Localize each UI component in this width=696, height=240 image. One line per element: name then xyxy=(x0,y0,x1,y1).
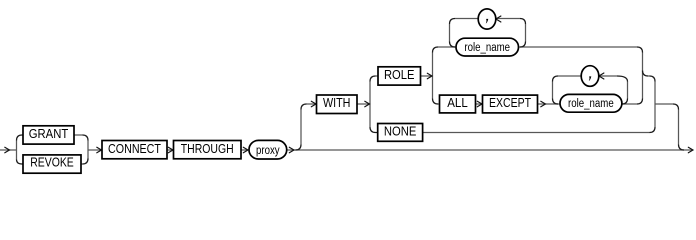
wire ALL to EXCEPT xyxy=(476,103,483,105)
corner loop2 left top xyxy=(553,76,559,82)
svg-text:WITH: WITH xyxy=(323,95,351,110)
arrow after EXCEPT xyxy=(541,101,546,107)
svg-text:role_name: role_name xyxy=(464,42,510,54)
wire with-branch riser xyxy=(300,110,302,145)
corner REVOKE to merge xyxy=(83,159,89,165)
corner loop1 left bottom xyxy=(450,42,456,48)
corner ALL row up into v1 xyxy=(637,99,643,105)
wire split vertical grant/revoke xyxy=(16,141,18,160)
wire loop2 top right xyxy=(598,75,617,77)
wire to role_name 1 xyxy=(438,46,456,48)
wire loop2 right vertical xyxy=(627,82,629,99)
corner loop2 right bottom rise xyxy=(622,99,628,105)
corner split to ALL row xyxy=(433,99,439,105)
corner role_name1 row into v1 xyxy=(637,47,643,53)
svg-text:REVOKE: REVOKE xyxy=(30,154,74,169)
corner split to role_name1 row xyxy=(433,47,439,53)
wire role_name1 out xyxy=(519,46,637,48)
svg-text:ALL: ALL xyxy=(447,95,468,110)
variable proxy xyxy=(249,140,287,159)
wire EXCEPT to role_name2 xyxy=(538,103,560,105)
svg-text:role_name: role_name xyxy=(568,98,614,110)
wire WITH to split xyxy=(357,103,369,105)
wire loop1 top left xyxy=(455,18,478,20)
corner loop2 right top xyxy=(617,76,628,82)
comma circle loop1 xyxy=(478,9,496,29)
arrow before EXCEPT xyxy=(477,101,482,107)
keyword NONE xyxy=(378,123,423,141)
arrow after proxy xyxy=(289,147,294,153)
corner split top to GRANT xyxy=(17,135,24,141)
arrow entry xyxy=(5,147,10,153)
svg-text:THROUGH: THROUGH xyxy=(181,141,234,156)
svg-text:CONNECT: CONNECT xyxy=(108,141,161,156)
wire v3 merge vertical xyxy=(678,110,680,145)
corner split to NONE xyxy=(370,127,378,133)
corner v3 into main xyxy=(679,145,685,151)
svg-text:ROLE: ROLE xyxy=(384,67,415,82)
keyword ROLE xyxy=(378,67,421,85)
svg-text:proxy: proxy xyxy=(256,145,280,157)
arrow final xyxy=(688,147,693,153)
svg-text:GRANT: GRANT xyxy=(29,126,69,141)
corner NONE row up into v2 xyxy=(650,127,656,133)
wire loop2 top left xyxy=(558,75,581,77)
keyword THROUGH xyxy=(174,141,242,159)
wire loop1 top right xyxy=(495,18,520,20)
wire v2 tap horizontal xyxy=(655,103,673,105)
wire main bypass xyxy=(287,149,693,151)
arrow loop1 (left) xyxy=(496,16,501,22)
wire to ALL xyxy=(438,103,440,105)
wire riser to WITH xyxy=(307,103,316,105)
corner riser to WITH row xyxy=(301,104,307,110)
arrow before CONNECT xyxy=(97,147,102,153)
wire role_name2 out xyxy=(622,103,637,105)
comma circle loop2 xyxy=(581,66,599,87)
arrow before proxy xyxy=(243,147,248,153)
wire v1 merge vertical xyxy=(642,53,644,99)
wire v2 merge vertical xyxy=(654,82,656,128)
corner split bottom to REVOKE xyxy=(17,160,24,165)
wire split vertical rolename/all xyxy=(432,53,434,99)
keyword REVOKE xyxy=(23,154,81,173)
corner tap down into v2 xyxy=(650,76,656,82)
wire THROUGH to proxy xyxy=(241,149,248,151)
corner loop1 right bottom rise xyxy=(520,42,526,48)
wire loop2 left vertical xyxy=(552,82,554,99)
wire revoke row lead xyxy=(81,163,83,165)
wire merge to CONNECT xyxy=(88,149,101,151)
arrow before WITH xyxy=(311,101,316,107)
keyword GRANT xyxy=(23,126,74,144)
keyword ALL xyxy=(440,95,476,113)
svg-text:EXCEPT: EXCEPT xyxy=(489,95,531,110)
arrow after ROLE xyxy=(427,73,432,79)
wire main entry xyxy=(0,149,17,151)
corner v1 tap out xyxy=(643,71,649,77)
wire NONE row xyxy=(423,132,650,134)
svg-text:NONE: NONE xyxy=(384,123,417,138)
variable role_name (except list) xyxy=(560,94,622,112)
corner loop1 right top xyxy=(520,19,526,25)
corner v2 tap into v3 xyxy=(673,104,679,110)
wire loop1 right vertical xyxy=(525,24,527,42)
corner loop1 left top xyxy=(450,19,456,25)
wire loop1 left vertical xyxy=(449,24,451,42)
wire CONNECT to THROUGH xyxy=(167,149,173,151)
wire ROLE to split xyxy=(421,75,432,77)
arrow after WITH xyxy=(365,101,370,107)
arrow before THROUGH xyxy=(168,147,173,153)
keyword WITH xyxy=(317,95,358,114)
variable role_name (list) xyxy=(456,38,519,56)
keyword EXCEPT xyxy=(483,95,538,113)
corner main to with-riser xyxy=(296,145,302,151)
arrow loop2 (left) xyxy=(599,73,604,79)
keyword CONNECT xyxy=(102,141,167,159)
wire to ROLE xyxy=(376,75,379,77)
corner GRANT to merge xyxy=(83,135,89,141)
wire split vertical role/none xyxy=(369,82,371,128)
wire merge vertical grant/revoke xyxy=(87,141,89,160)
corner loop2 left bottom xyxy=(553,99,559,105)
corner split to ROLE xyxy=(370,76,376,82)
wire v1 tap horizontal xyxy=(648,75,650,77)
wire grant row lead xyxy=(74,134,83,136)
